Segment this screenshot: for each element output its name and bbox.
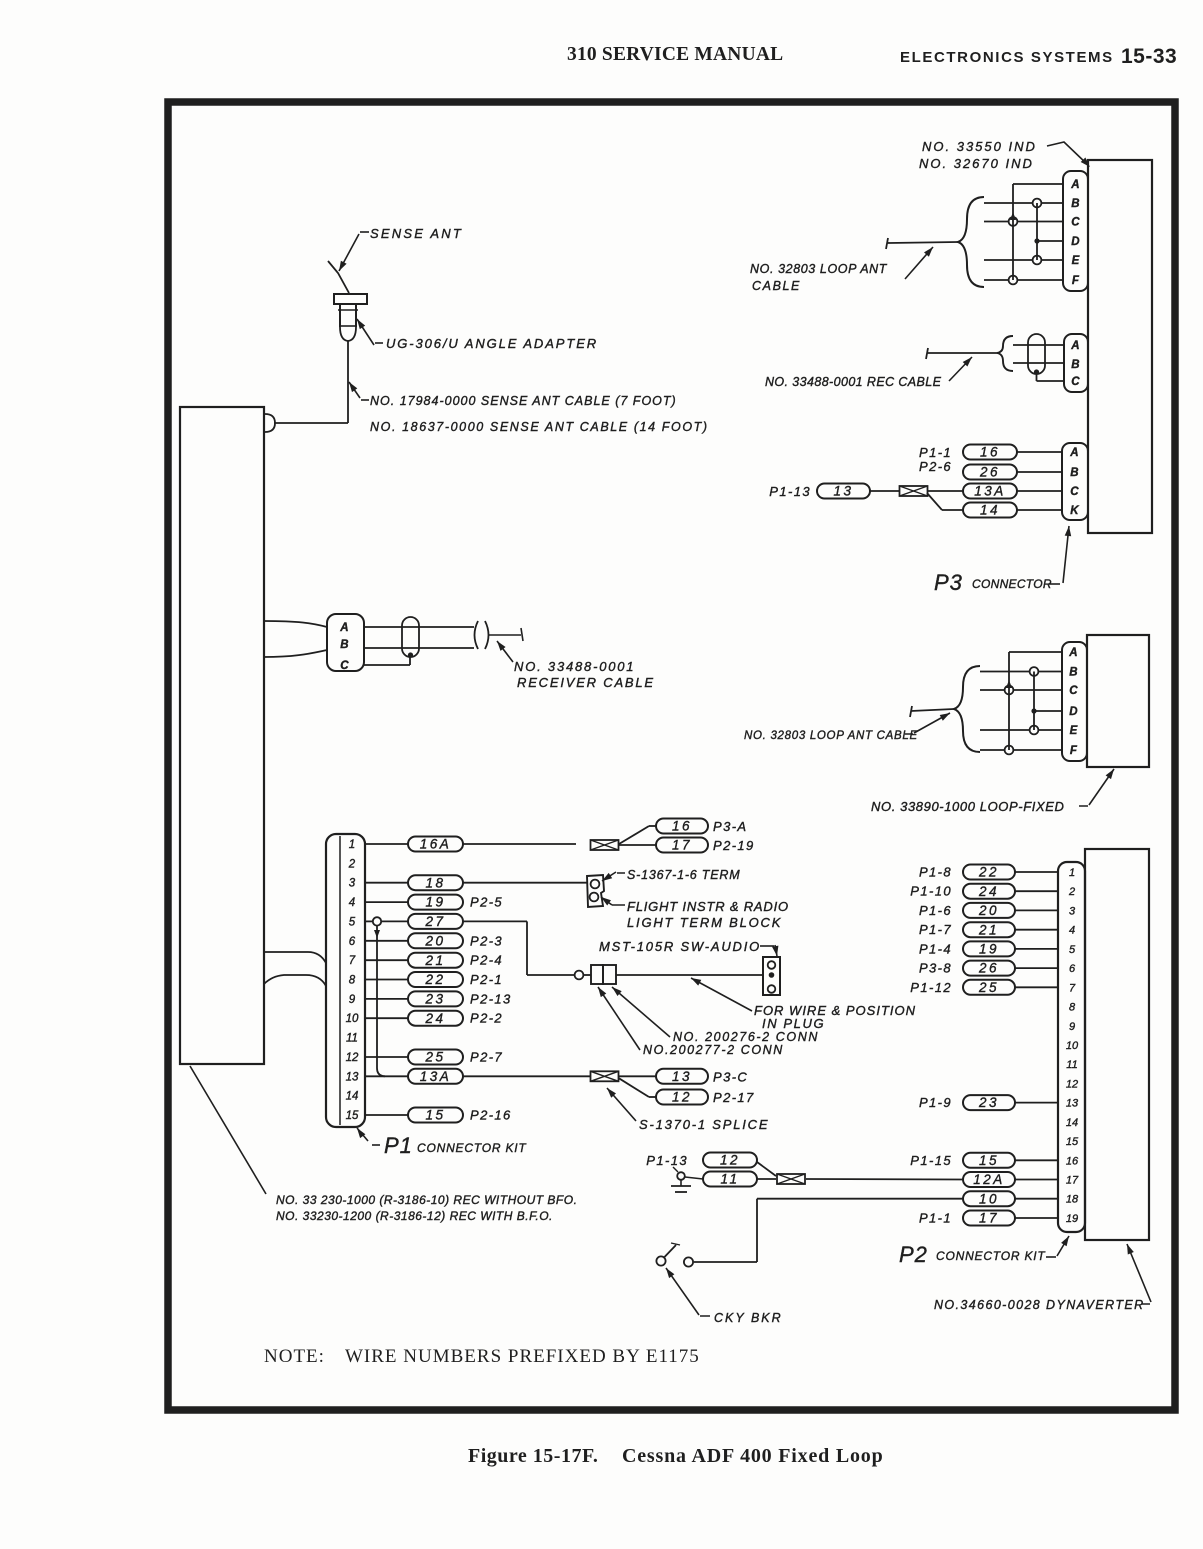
svg-text:13: 13 bbox=[346, 1071, 359, 1083]
svg-text:NO. 33488-0001: NO. 33488-0001 bbox=[514, 659, 635, 674]
svg-text:CKY BKR: CKY BKR bbox=[714, 1311, 783, 1325]
svg-text:12A: 12A bbox=[973, 1172, 1005, 1187]
svg-text:2: 2 bbox=[348, 858, 356, 870]
svg-text:P3: P3 bbox=[934, 570, 963, 595]
svg-text:NO. 32803 LOOP ANT CABLE: NO. 32803 LOOP ANT CABLE bbox=[744, 730, 918, 742]
svg-text:15: 15 bbox=[979, 1153, 999, 1168]
svg-text:16: 16 bbox=[672, 819, 692, 834]
svg-text:15-33: 15-33 bbox=[1121, 45, 1177, 68]
svg-text:WIRE NUMBERS PREFIXED BY E1175: WIRE NUMBERS PREFIXED BY E1175 bbox=[345, 1346, 700, 1367]
svg-text:P1-1: P1-1 bbox=[919, 1211, 952, 1226]
svg-text:Figure 15-17F.: Figure 15-17F. bbox=[468, 1445, 598, 1467]
svg-text:P2: P2 bbox=[899, 1242, 928, 1267]
svg-text:K: K bbox=[1070, 505, 1080, 517]
svg-text:NO. 17984-0000 SENSE ANT CABLE: NO. 17984-0000 SENSE ANT CABLE (7 FOOT) bbox=[370, 394, 677, 408]
svg-text:F: F bbox=[1072, 275, 1080, 287]
svg-text:MST-105R SW-AUDIO: MST-105R SW-AUDIO bbox=[599, 939, 761, 954]
svg-text:FLIGHT INSTR & RADIO: FLIGHT INSTR & RADIO bbox=[627, 899, 789, 914]
svg-text:NO. 33230-1200 (R-3186-12) REC: NO. 33230-1200 (R-3186-12) REC WITH B.F.… bbox=[276, 1209, 553, 1223]
svg-text:22: 22 bbox=[424, 972, 445, 987]
svg-text:26: 26 bbox=[978, 961, 999, 976]
svg-text:P2-3: P2-3 bbox=[470, 933, 503, 948]
svg-text:NO. 33890-1000 LOOP-FIXED: NO. 33890-1000 LOOP-FIXED bbox=[871, 799, 1064, 814]
svg-text:P2-19: P2-19 bbox=[713, 838, 755, 853]
svg-text:23: 23 bbox=[978, 1095, 999, 1110]
svg-text:CONNECTOR: CONNECTOR bbox=[972, 577, 1052, 591]
svg-text:P1-10: P1-10 bbox=[910, 884, 952, 899]
svg-text:P3-C: P3-C bbox=[713, 1069, 748, 1084]
svg-text:19: 19 bbox=[979, 942, 999, 957]
svg-text:11: 11 bbox=[720, 1172, 739, 1187]
svg-text:P2-4: P2-4 bbox=[470, 953, 503, 968]
svg-text:P2-1: P2-1 bbox=[470, 972, 503, 987]
svg-text:11: 11 bbox=[1066, 1059, 1077, 1071]
svg-text:11: 11 bbox=[346, 1033, 358, 1045]
svg-text:D: D bbox=[1069, 706, 1079, 718]
svg-text:13: 13 bbox=[1066, 1098, 1079, 1110]
svg-text:NO. 32803 LOOP ANT: NO. 32803 LOOP ANT bbox=[750, 262, 888, 276]
svg-text:12: 12 bbox=[346, 1052, 359, 1064]
svg-text:14: 14 bbox=[1066, 1117, 1078, 1129]
svg-text:B: B bbox=[1070, 467, 1080, 479]
svg-text:13: 13 bbox=[672, 1069, 692, 1084]
svg-text:ELECTRONICS SYSTEMS: ELECTRONICS SYSTEMS bbox=[900, 49, 1114, 66]
svg-text:P2-2: P2-2 bbox=[470, 1011, 503, 1026]
svg-text:12: 12 bbox=[1066, 1078, 1078, 1090]
svg-text:26: 26 bbox=[979, 465, 1000, 480]
svg-text:12: 12 bbox=[672, 1090, 692, 1105]
svg-text:10: 10 bbox=[346, 1013, 359, 1025]
svg-text:S-1367-1-6 TERM: S-1367-1-6 TERM bbox=[627, 868, 740, 882]
svg-text:13: 13 bbox=[833, 484, 853, 499]
svg-text:CONNECTOR KIT: CONNECTOR KIT bbox=[417, 1141, 527, 1155]
svg-text:UG-306/U ANGLE ADAPTER: UG-306/U ANGLE ADAPTER bbox=[386, 336, 598, 351]
svg-text:12: 12 bbox=[720, 1153, 740, 1168]
svg-text:5: 5 bbox=[349, 916, 356, 928]
svg-text:18: 18 bbox=[1066, 1194, 1079, 1206]
svg-text:CONNECTOR KIT: CONNECTOR KIT bbox=[936, 1249, 1046, 1263]
svg-text:25: 25 bbox=[424, 1050, 445, 1065]
svg-text:8: 8 bbox=[1069, 1002, 1076, 1014]
svg-text:F: F bbox=[1070, 745, 1078, 757]
svg-text:310 SERVICE MANUAL: 310 SERVICE MANUAL bbox=[567, 44, 783, 65]
svg-text:P1-8: P1-8 bbox=[919, 865, 952, 880]
svg-text:9: 9 bbox=[1069, 1021, 1075, 1033]
svg-text:NO. 33 230-1000 (R-3186-10) RE: NO. 33 230-1000 (R-3186-10) REC WITHOUT … bbox=[276, 1193, 577, 1207]
svg-text:20: 20 bbox=[424, 933, 445, 948]
svg-text:P3-A: P3-A bbox=[713, 819, 748, 834]
svg-text:P2-6: P2-6 bbox=[919, 459, 952, 474]
svg-text:16A: 16A bbox=[420, 837, 452, 852]
svg-text:NO. 33488-0001 REC CABLE: NO. 33488-0001 REC CABLE bbox=[765, 375, 942, 389]
svg-text:A: A bbox=[1070, 340, 1081, 352]
svg-text:LIGHT TERM BLOCK: LIGHT TERM BLOCK bbox=[627, 915, 782, 930]
svg-text:P1-9: P1-9 bbox=[919, 1095, 952, 1110]
svg-text:19: 19 bbox=[1066, 1213, 1078, 1225]
svg-text:P1-15: P1-15 bbox=[910, 1153, 952, 1168]
svg-text:17: 17 bbox=[672, 838, 692, 853]
svg-text:P2-5: P2-5 bbox=[470, 895, 503, 910]
svg-text:21: 21 bbox=[978, 922, 999, 937]
svg-text:14: 14 bbox=[346, 1091, 359, 1103]
svg-text:Cessna ADF 400 Fixed Loop: Cessna ADF 400 Fixed Loop bbox=[622, 1445, 884, 1467]
svg-text:NO. 32670 IND: NO. 32670 IND bbox=[919, 156, 1034, 171]
svg-text:16: 16 bbox=[1066, 1155, 1079, 1167]
svg-text:P2-7: P2-7 bbox=[470, 1050, 503, 1065]
svg-text:C: C bbox=[1069, 685, 1079, 697]
svg-text:20: 20 bbox=[978, 903, 999, 918]
svg-text:P2-13: P2-13 bbox=[470, 991, 512, 1006]
svg-text:SENSE ANT: SENSE ANT bbox=[370, 226, 463, 241]
svg-text:NOTE:: NOTE: bbox=[264, 1346, 325, 1367]
svg-text:P1: P1 bbox=[384, 1133, 413, 1158]
svg-text:17: 17 bbox=[1066, 1175, 1079, 1187]
svg-text:22: 22 bbox=[978, 865, 999, 880]
svg-text:5: 5 bbox=[1069, 944, 1076, 956]
svg-text:19: 19 bbox=[425, 895, 445, 910]
svg-text:C: C bbox=[1071, 217, 1081, 229]
svg-text:IN PLUG: IN PLUG bbox=[762, 1016, 825, 1031]
svg-text:A: A bbox=[1070, 179, 1081, 191]
svg-text:4: 4 bbox=[349, 897, 355, 909]
svg-text:6: 6 bbox=[349, 936, 356, 948]
svg-text:A: A bbox=[1069, 447, 1080, 459]
svg-text:E: E bbox=[1072, 255, 1081, 267]
svg-text:27: 27 bbox=[424, 914, 445, 929]
svg-text:25: 25 bbox=[978, 980, 999, 995]
svg-text:6: 6 bbox=[1069, 963, 1076, 975]
svg-text:16: 16 bbox=[980, 445, 1000, 460]
svg-text:7: 7 bbox=[349, 955, 356, 967]
svg-text:14: 14 bbox=[980, 503, 1000, 518]
svg-text:17: 17 bbox=[979, 1211, 999, 1226]
svg-text:B: B bbox=[1071, 198, 1081, 210]
svg-text:NO.34660-0028 DYNAVERTER: NO.34660-0028 DYNAVERTER bbox=[934, 1298, 1145, 1312]
svg-text:A: A bbox=[339, 622, 350, 634]
svg-text:23: 23 bbox=[424, 992, 445, 1007]
svg-text:B: B bbox=[1071, 359, 1081, 371]
svg-text:8: 8 bbox=[349, 975, 356, 987]
svg-text:CABLE: CABLE bbox=[752, 279, 801, 293]
svg-text:C: C bbox=[340, 660, 350, 672]
svg-text:24: 24 bbox=[978, 884, 999, 899]
svg-text:15: 15 bbox=[425, 1108, 445, 1123]
svg-text:18: 18 bbox=[425, 875, 445, 890]
svg-text:1: 1 bbox=[349, 839, 355, 851]
svg-text:RECEIVER CABLE: RECEIVER CABLE bbox=[517, 675, 655, 690]
svg-text:1: 1 bbox=[1069, 867, 1075, 879]
svg-text:P1-13: P1-13 bbox=[769, 484, 811, 499]
svg-text:3: 3 bbox=[349, 878, 356, 890]
svg-text:B: B bbox=[1069, 667, 1079, 679]
svg-text:C: C bbox=[1070, 486, 1080, 498]
svg-text:10: 10 bbox=[1066, 1040, 1079, 1052]
svg-text:NO. 33550 IND: NO. 33550 IND bbox=[922, 139, 1037, 154]
svg-text:3: 3 bbox=[1069, 905, 1076, 917]
svg-text:S-1370-1 SPLICE: S-1370-1 SPLICE bbox=[639, 1117, 769, 1132]
svg-text:P1-4: P1-4 bbox=[919, 941, 952, 956]
svg-text:B: B bbox=[340, 639, 350, 651]
svg-text:9: 9 bbox=[349, 994, 356, 1006]
svg-text:P2-17: P2-17 bbox=[713, 1090, 755, 1105]
svg-text:15: 15 bbox=[346, 1110, 359, 1122]
svg-text:P1-1: P1-1 bbox=[919, 445, 952, 460]
svg-text:10: 10 bbox=[979, 1191, 999, 1206]
svg-text:P1-13: P1-13 bbox=[646, 1153, 688, 1168]
svg-text:15: 15 bbox=[1066, 1136, 1079, 1148]
svg-text:C: C bbox=[1071, 376, 1081, 388]
svg-text:NO.200277-2 CONN: NO.200277-2 CONN bbox=[643, 1043, 784, 1057]
svg-text:13A: 13A bbox=[974, 484, 1006, 499]
svg-text:7: 7 bbox=[1069, 982, 1076, 994]
svg-text:2: 2 bbox=[1068, 886, 1075, 898]
svg-text:E: E bbox=[1070, 725, 1079, 737]
svg-text:A: A bbox=[1068, 647, 1079, 659]
svg-text:NO. 18637-0000 SENSE ANT CABLE: NO. 18637-0000 SENSE ANT CABLE (14 FOOT) bbox=[370, 420, 709, 434]
svg-text:21: 21 bbox=[424, 953, 445, 968]
svg-text:P1-6: P1-6 bbox=[919, 903, 952, 918]
svg-text:P1-7: P1-7 bbox=[919, 922, 952, 937]
svg-text:4: 4 bbox=[1069, 925, 1075, 937]
svg-text:13A: 13A bbox=[420, 1069, 452, 1084]
svg-text:D: D bbox=[1071, 236, 1081, 248]
svg-text:NO. 200276-2 CONN: NO. 200276-2 CONN bbox=[673, 1030, 819, 1044]
svg-text:24: 24 bbox=[424, 1011, 445, 1026]
svg-text:P2-16: P2-16 bbox=[470, 1108, 512, 1123]
svg-text:P1-12: P1-12 bbox=[910, 980, 952, 995]
svg-text:P3-8: P3-8 bbox=[919, 961, 952, 976]
